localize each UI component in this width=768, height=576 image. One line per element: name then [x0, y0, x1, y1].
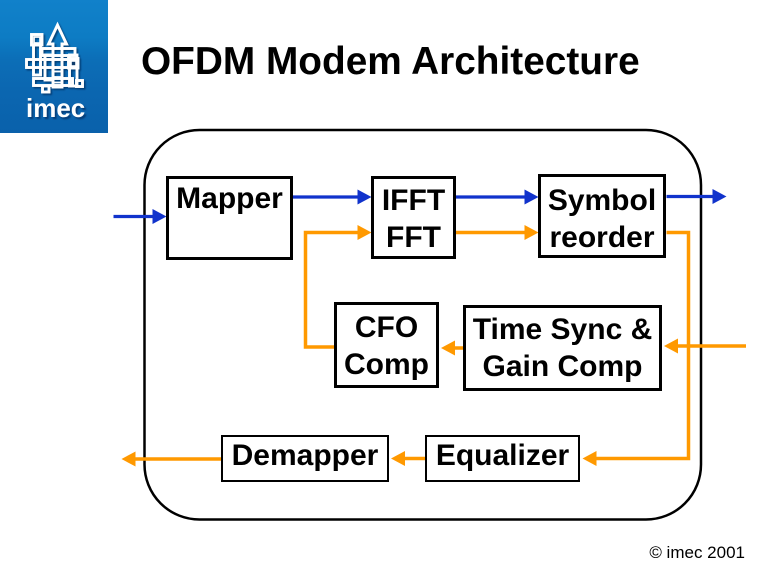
block Symbol reorder: [538, 174, 666, 258]
left tower shaft: [34, 45, 41, 75]
left tower square: [32, 35, 43, 46]
system boundary: [145, 130, 702, 520]
wire blue TX input: [114, 209, 167, 224]
logo text imec: [26, 95, 85, 121]
imec logo: [0, 0, 108, 133]
right vertical bar: [70, 55, 78, 86]
wire orange CFO Comp to FFT: [306, 225, 372, 347]
block Demapper: [221, 435, 389, 482]
ladder rungs: [53, 72, 62, 83]
wire orange Symbol reorder to Equalizer: [583, 233, 689, 467]
wire orange Time Sync to CFO Comp: [441, 341, 463, 356]
wire orange RX input: [664, 339, 746, 354]
block CFO Comp: [334, 302, 439, 388]
upper right bar: [42, 49, 75, 56]
copyright: [545, 543, 745, 563]
long horizontal bar: [27, 60, 77, 68]
wire orange FFT to Symbol reorder: [456, 225, 539, 240]
block IFFT FFT: [371, 176, 456, 259]
title: [141, 41, 640, 83]
block Mapper: [166, 176, 293, 260]
block Equalizer: [425, 435, 580, 482]
right square: [69, 59, 79, 69]
mid vertical: [45, 55, 53, 80]
arrow up: [49, 25, 67, 87]
wire orange RX output: [122, 452, 222, 467]
bottom stub: [43, 86, 50, 92]
logo mark: [0, 0, 108, 133]
wire orange Equalizer to Demapper: [391, 451, 426, 466]
wire blue TX output: [667, 189, 727, 204]
wire blue Mapper to IFFT: [293, 190, 372, 205]
bottom bar: [34, 79, 73, 86]
right stub: [77, 81, 83, 87]
wire blue IFFT to Symbol reorder: [456, 190, 539, 205]
block Time Sync and Gain Comp: [463, 305, 662, 391]
